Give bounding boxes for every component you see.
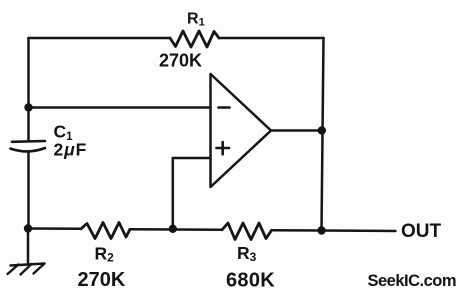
wire top feedback left segment <box>29 37 171 40</box>
op-amp U1 plus input marking <box>217 142 230 154</box>
wire to inverting input <box>29 106 211 109</box>
svg-text:OUT: OUT <box>401 221 442 242</box>
svg-text:R1: R1 <box>187 11 205 29</box>
node E junction (bottom left / ground) <box>24 224 32 232</box>
op-amp U1 minus input marking <box>219 106 230 109</box>
wire left vertical lower <box>27 152 30 229</box>
svg-text:270K: 270K <box>159 51 202 71</box>
wire noninverting input horizontal <box>173 157 211 160</box>
wire output <box>271 129 322 132</box>
wire to OUT terminal <box>322 229 396 232</box>
svg-text:SeekIC.com: SeekIC.com <box>368 272 457 290</box>
svg-text:R2: R2 <box>95 243 115 264</box>
svg-text:680K: 680K <box>226 269 275 291</box>
wire noninverting input vertical <box>172 158 175 229</box>
wire left vertical upper <box>27 38 30 141</box>
node A junction (inverting input tap) <box>24 103 32 111</box>
op-amp U1 triangle <box>211 74 272 187</box>
svg-text:R3: R3 <box>237 243 257 264</box>
wire ground stem <box>27 229 30 263</box>
wire top feedback right segment <box>219 37 324 40</box>
wire bottom middle segment <box>130 228 222 231</box>
wire bottom right segment <box>272 229 322 232</box>
capacitor C1 <box>11 141 46 151</box>
wire bottom left segment <box>28 227 81 230</box>
wire right vertical <box>322 38 324 231</box>
ground <box>8 264 45 275</box>
node B junction (R2/R3 tap to + input) <box>169 225 177 233</box>
svg-text:2μF: 2μF <box>54 140 88 160</box>
node C junction (op-amp output) <box>318 126 326 134</box>
node D junction (bottom right) <box>317 226 325 234</box>
resistor R1 <box>170 31 219 47</box>
svg-text:270K: 270K <box>78 269 126 291</box>
resistor R2 <box>81 223 130 239</box>
resistor R3 <box>222 223 272 240</box>
